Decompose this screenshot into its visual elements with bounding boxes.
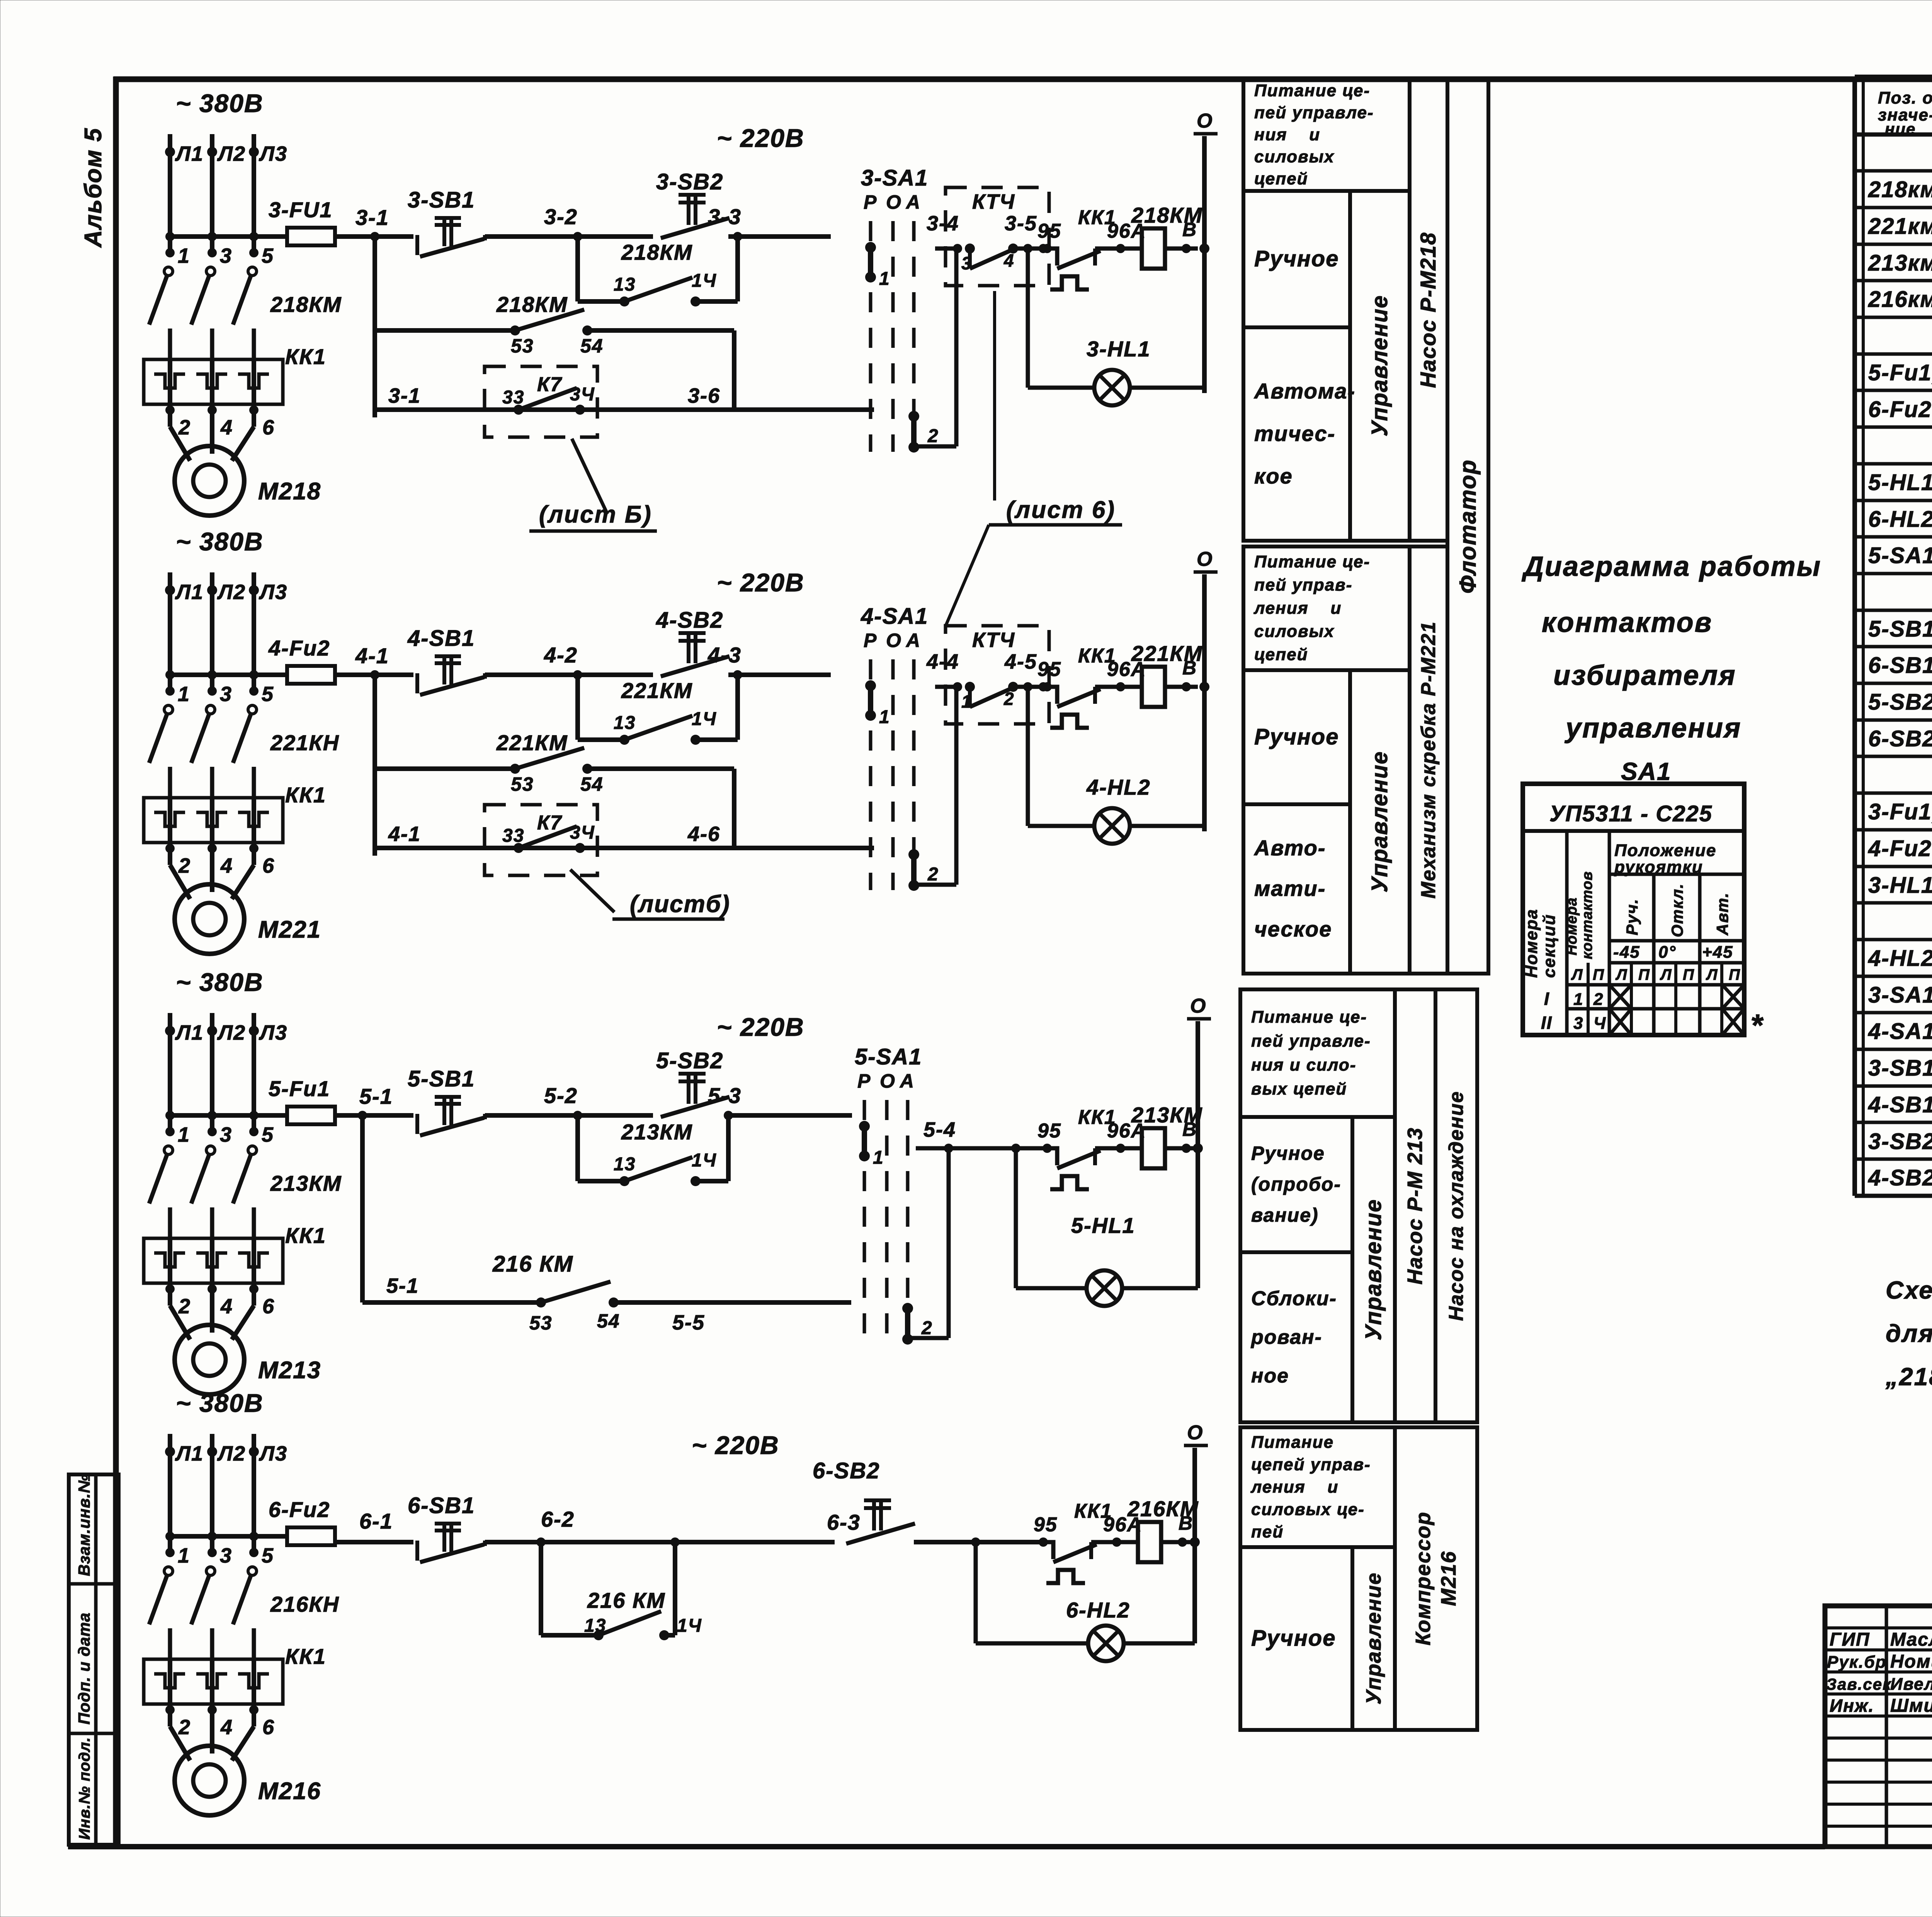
svg-text:ния и сило-: ния и сило- xyxy=(1251,1056,1356,1074)
svg-text:В: В xyxy=(1182,1119,1197,1140)
svg-text:О: О xyxy=(1197,110,1213,132)
svg-text:Л2: Л2 xyxy=(217,1442,246,1465)
svg-text:ческое: ческое xyxy=(1254,917,1332,941)
svg-text:216КН: 216КН xyxy=(270,1592,339,1616)
svg-text:221КМ: 221КМ xyxy=(621,678,693,703)
svg-text:Р: Р xyxy=(864,191,877,213)
svg-text:6-Fu2: 6-Fu2 xyxy=(269,1497,330,1522)
svg-text:Автома-: Автома- xyxy=(1253,379,1355,403)
svg-text:3: 3 xyxy=(220,683,232,706)
svg-text:4-Fu2: 4-Fu2 xyxy=(1868,836,1932,861)
svg-text:3-Fu1,: 3-Fu1, xyxy=(1868,799,1932,824)
svg-text:~ 220В: ~ 220В xyxy=(717,124,804,152)
svg-text:4-SA1: 4-SA1 xyxy=(861,604,928,629)
svg-text:ния и: ния и xyxy=(1254,125,1320,144)
svg-text:II: II xyxy=(1541,1013,1553,1033)
svg-text:Авт.: Авт. xyxy=(1713,892,1731,936)
svg-text:Шмидт: Шмидт xyxy=(1890,1696,1932,1716)
svg-text:~ 380В: ~ 380В xyxy=(176,89,264,117)
svg-text:4-SB1: 4-SB1 xyxy=(407,626,475,651)
svg-text:О: О xyxy=(1197,548,1213,570)
svg-text:6-SB1: 6-SB1 xyxy=(408,1493,475,1518)
svg-text:3-2: 3-2 xyxy=(544,204,578,229)
svg-text:3-SВ1,: 3-SВ1, xyxy=(1868,1056,1932,1081)
svg-text:2: 2 xyxy=(927,864,939,885)
svg-text:3-SB1: 3-SB1 xyxy=(408,187,475,213)
svg-text:3: 3 xyxy=(1573,1014,1583,1033)
svg-text:Л1: Л1 xyxy=(175,1021,204,1044)
svg-text:213км: 213км xyxy=(1868,250,1932,276)
svg-text:13: 13 xyxy=(614,713,636,733)
svg-text:1: 1 xyxy=(873,1147,884,1168)
svg-text:КК1: КК1 xyxy=(285,344,326,369)
svg-text:ления и: ления и xyxy=(1250,1478,1338,1496)
svg-text:О: О xyxy=(886,630,902,651)
svg-text:3-SB2: 3-SB2 xyxy=(656,169,723,194)
svg-text:КТЧ: КТЧ xyxy=(972,628,1015,652)
svg-text:Питание: Питание xyxy=(1251,1433,1334,1452)
svg-text:ления и: ления и xyxy=(1253,599,1342,618)
svg-text:3: 3 xyxy=(220,244,232,267)
svg-text:~ 380В: ~ 380В xyxy=(176,527,264,556)
svg-text:2: 2 xyxy=(1593,990,1604,1009)
svg-text:1: 1 xyxy=(178,683,190,706)
svg-text:П: П xyxy=(1638,966,1650,983)
svg-text:В: В xyxy=(1182,219,1197,240)
svg-text:Л1: Л1 xyxy=(175,142,204,165)
svg-text:221КМ: 221КМ xyxy=(496,730,568,755)
svg-text:П: П xyxy=(1683,966,1695,983)
svg-text:О: О xyxy=(1187,1422,1203,1444)
svg-text:цепей: цепей xyxy=(1254,645,1308,664)
svg-text:Управление: Управление xyxy=(1361,1199,1386,1340)
svg-text:4-3: 4-3 xyxy=(707,643,742,667)
svg-text:5-Fu1,: 5-Fu1, xyxy=(1868,360,1932,385)
svg-text:Л3: Л3 xyxy=(259,1021,287,1044)
svg-text:М216: М216 xyxy=(1437,1551,1460,1606)
svg-text:М216: М216 xyxy=(258,1778,321,1805)
svg-text:5-4: 5-4 xyxy=(923,1118,956,1141)
svg-text:5-SA1: 5-SA1 xyxy=(855,1044,922,1069)
svg-text:Инж.: Инж. xyxy=(1830,1696,1874,1716)
svg-text:95: 95 xyxy=(1037,1120,1061,1142)
svg-text:Флотатор: Флотатор xyxy=(1455,459,1481,594)
svg-text:6: 6 xyxy=(262,416,275,439)
svg-text:Ручное: Ручное xyxy=(1251,1626,1336,1651)
svg-text:4-6: 4-6 xyxy=(687,822,720,846)
svg-text:Ручное: Ручное xyxy=(1254,246,1339,271)
svg-text:Сблоки-: Сблоки- xyxy=(1251,1287,1337,1310)
svg-text:95: 95 xyxy=(1034,1514,1058,1536)
svg-text:5-1: 5-1 xyxy=(359,1084,393,1108)
svg-text:4: 4 xyxy=(220,1295,233,1318)
svg-text:кое: кое xyxy=(1254,464,1293,488)
svg-text:3-НL1: 3-НL1 xyxy=(1087,337,1151,361)
svg-text:контактов: контактов xyxy=(1579,871,1595,959)
svg-text:3: 3 xyxy=(220,1544,232,1567)
svg-text:Л2: Л2 xyxy=(217,1021,246,1044)
svg-text:мати-: мати- xyxy=(1254,876,1326,901)
svg-text:2: 2 xyxy=(178,416,191,439)
svg-text:6: 6 xyxy=(262,1295,275,1318)
svg-text:Компрессор: Компрессор xyxy=(1412,1512,1435,1646)
svg-text:5-1: 5-1 xyxy=(386,1274,419,1297)
svg-text:Питание це-: Питание це- xyxy=(1254,552,1370,571)
svg-text:М218: М218 xyxy=(258,478,321,505)
svg-text:К7: К7 xyxy=(537,812,562,834)
svg-text:рукоятки: рукоятки xyxy=(1614,858,1703,877)
svg-text:6: 6 xyxy=(262,854,275,877)
svg-text:1Ч: 1Ч xyxy=(692,709,717,729)
svg-text:218КМ: 218КМ xyxy=(270,292,342,317)
svg-text:218КМ: 218КМ xyxy=(496,292,568,317)
svg-text:Номера: Номера xyxy=(1522,909,1541,978)
svg-text:4-НL2: 4-НL2 xyxy=(1868,946,1932,971)
svg-text:Управление: Управление xyxy=(1367,751,1392,892)
svg-text:А: А xyxy=(899,1070,915,1092)
svg-text:силовых: силовых xyxy=(1254,622,1335,641)
svg-text:Масленик: Масленик xyxy=(1890,1629,1932,1650)
svg-text:3-6: 3-6 xyxy=(688,384,720,407)
svg-text:Номин: Номин xyxy=(1890,1651,1932,1672)
svg-text:вание): вание) xyxy=(1251,1204,1319,1226)
svg-text:5-НL1,: 5-НL1, xyxy=(1868,470,1932,495)
svg-text:5-SВ2: 5-SВ2 xyxy=(1868,690,1932,715)
svg-text:КК1: КК1 xyxy=(285,1223,326,1248)
svg-text:4-SB2: 4-SB2 xyxy=(656,608,723,633)
svg-text:4-5: 4-5 xyxy=(1004,650,1037,673)
svg-text:ное: ное xyxy=(1251,1365,1289,1387)
svg-text:4-1: 4-1 xyxy=(355,644,389,668)
svg-text:5-3: 5-3 xyxy=(708,1083,742,1108)
svg-text:Рук.бр: Рук.бр xyxy=(1827,1653,1886,1672)
svg-text:Насос Р-М218: Насос Р-М218 xyxy=(1416,232,1440,388)
svg-text:Л: Л xyxy=(1615,966,1628,983)
svg-text:~ 220В: ~ 220В xyxy=(717,1013,804,1041)
svg-text:6-2: 6-2 xyxy=(541,1507,575,1531)
svg-text:5-Fu1: 5-Fu1 xyxy=(269,1076,330,1101)
svg-text:управления: управления xyxy=(1565,713,1742,744)
svg-text:Номера: Номера xyxy=(1564,897,1580,955)
svg-text:4-1: 4-1 xyxy=(388,822,421,846)
svg-text:4: 4 xyxy=(220,854,233,877)
svg-text:К7: К7 xyxy=(537,373,562,396)
svg-text:пей управле-: пей управле- xyxy=(1254,103,1374,122)
svg-text:5-SB2: 5-SB2 xyxy=(656,1048,723,1073)
svg-text:Альбом 5: Альбом 5 xyxy=(80,128,107,248)
svg-text:1: 1 xyxy=(1573,990,1583,1009)
svg-text:5-5: 5-5 xyxy=(672,1311,705,1334)
svg-text:Руч.: Руч. xyxy=(1623,898,1641,935)
svg-text:Питание це-: Питание це- xyxy=(1254,81,1370,100)
svg-text:для другого она аналогична: для другого она аналогична с заменой инд… xyxy=(1886,1319,1932,1347)
svg-text:4-SВ1: 4-SВ1 xyxy=(1868,1092,1932,1117)
svg-text:3-SВ2,: 3-SВ2, xyxy=(1868,1129,1932,1154)
svg-text:2: 2 xyxy=(178,854,191,877)
svg-text:0°: 0° xyxy=(1658,943,1676,962)
svg-text:13: 13 xyxy=(614,274,636,295)
svg-text:6: 6 xyxy=(262,1716,275,1739)
svg-text:3-5: 3-5 xyxy=(1005,212,1037,235)
svg-text:А: А xyxy=(905,191,921,213)
svg-text:Насос на охлаждение: Насос на охлаждение xyxy=(1445,1091,1468,1321)
svg-text:избирателя: избирателя xyxy=(1553,660,1736,691)
svg-text:5: 5 xyxy=(262,1123,274,1146)
svg-text:В: В xyxy=(1179,1512,1193,1534)
svg-text:ние: ние xyxy=(1885,120,1916,138)
svg-text:силовых це-: силовых це- xyxy=(1251,1500,1365,1519)
svg-text:пей управ-: пей управ- xyxy=(1254,575,1352,594)
svg-text:4-4: 4-4 xyxy=(926,650,959,673)
svg-text:(опробо-: (опробо- xyxy=(1251,1173,1341,1195)
svg-text:5: 5 xyxy=(262,1544,274,1567)
svg-text:Откл.: Откл. xyxy=(1668,883,1686,937)
svg-text:221км: 221км xyxy=(1868,214,1932,239)
svg-text:Положение: Положение xyxy=(1614,841,1716,860)
svg-text:4: 4 xyxy=(220,416,233,439)
svg-text:53: 53 xyxy=(529,1312,553,1334)
svg-text:218км: 218км xyxy=(1868,177,1932,202)
svg-text:33: 33 xyxy=(502,387,524,408)
svg-text:213КМ: 213КМ xyxy=(621,1120,693,1144)
svg-text:Ручное: Ручное xyxy=(1251,1142,1325,1164)
svg-text:Инв.№ подл.: Инв.№ подл. xyxy=(76,1737,93,1840)
svg-text:Л3: Л3 xyxy=(259,1442,287,1465)
svg-text:53: 53 xyxy=(511,773,534,795)
svg-text:цепей: цепей xyxy=(1254,169,1308,188)
svg-text:216 КМ: 216 КМ xyxy=(587,1588,665,1612)
svg-text:-45: -45 xyxy=(1613,943,1640,962)
svg-text:13: 13 xyxy=(614,1154,636,1175)
svg-text:пей управле-: пей управле- xyxy=(1251,1032,1371,1050)
svg-text:М213: М213 xyxy=(258,1357,321,1384)
svg-text:П: П xyxy=(1729,966,1741,983)
svg-text:4-НL2: 4-НL2 xyxy=(1086,775,1151,799)
svg-text:тичес-: тичес- xyxy=(1254,421,1335,446)
svg-text:ГИП: ГИП xyxy=(1830,1629,1870,1650)
svg-text:КК1: КК1 xyxy=(285,1644,326,1668)
svg-text:33: 33 xyxy=(502,826,524,846)
svg-text:1Ч: 1Ч xyxy=(692,271,717,291)
svg-text:5-2: 5-2 xyxy=(544,1083,578,1108)
svg-text:2: 2 xyxy=(178,1295,191,1318)
svg-text:А: А xyxy=(905,630,921,651)
svg-text:6-Fu2: 6-Fu2 xyxy=(1868,397,1932,422)
svg-text:*: * xyxy=(1750,1008,1764,1042)
svg-text:Л: Л xyxy=(1660,966,1672,983)
svg-text:I: I xyxy=(1544,989,1550,1009)
svg-text:Авто-: Авто- xyxy=(1253,836,1326,860)
svg-text:6-SВ2: 6-SВ2 xyxy=(1868,726,1932,751)
svg-text:„218” и „221” но „223” и „226”: „218” и „221” но „223” и „226” и „3”,„4”… xyxy=(1885,1363,1932,1391)
svg-text:силовых: силовых xyxy=(1254,147,1335,166)
svg-text:3-FU1: 3-FU1 xyxy=(269,197,333,222)
svg-text:рован-: рован- xyxy=(1250,1326,1322,1348)
svg-text:Подп. и дата: Подп. и дата xyxy=(75,1612,93,1725)
svg-text:Л2: Л2 xyxy=(217,581,246,604)
svg-text:Л: Л xyxy=(1571,966,1583,983)
svg-text:Ч: Ч xyxy=(1594,1014,1606,1033)
svg-text:УП5311 - С225: УП5311 - С225 xyxy=(1549,801,1713,826)
svg-text:6-НL2: 6-НL2 xyxy=(1066,1598,1130,1622)
svg-text:~ 220В: ~ 220В xyxy=(692,1431,779,1459)
svg-text:Взам.инв.№: Взам.инв.№ xyxy=(75,1474,93,1576)
svg-text:54: 54 xyxy=(580,335,604,357)
svg-text:218КМ: 218КМ xyxy=(621,240,693,264)
svg-text:Л3: Л3 xyxy=(259,581,287,604)
svg-text:Р: Р xyxy=(864,630,877,651)
svg-text:5-SB1: 5-SB1 xyxy=(408,1066,475,1091)
svg-text:6-НL2: 6-НL2 xyxy=(1868,507,1932,532)
svg-text:213КМ: 213КМ xyxy=(270,1171,342,1195)
svg-text:~ 380В: ~ 380В xyxy=(176,968,264,996)
svg-text:+45: +45 xyxy=(1702,943,1733,962)
svg-text:КК1: КК1 xyxy=(285,783,326,807)
svg-text:3: 3 xyxy=(220,1123,232,1146)
svg-text:3-1: 3-1 xyxy=(355,205,389,230)
svg-text:Л1: Л1 xyxy=(175,581,204,604)
svg-text:Ручное: Ручное xyxy=(1254,724,1339,749)
svg-text:М221: М221 xyxy=(258,916,321,943)
svg-text:6-1: 6-1 xyxy=(359,1509,393,1533)
svg-text:221КН: 221КН xyxy=(270,730,339,755)
svg-text:О: О xyxy=(886,191,902,213)
svg-text:4-SВ2: 4-SВ2 xyxy=(1868,1165,1932,1190)
svg-text:95: 95 xyxy=(1037,220,1061,242)
svg-text:1: 1 xyxy=(178,1544,190,1567)
svg-text:Механизм скребка Р-М221: Механизм скребка Р-М221 xyxy=(1417,621,1440,899)
svg-text:Л3: Л3 xyxy=(259,142,287,165)
svg-text:Управление: Управление xyxy=(1362,1572,1385,1704)
svg-text:1: 1 xyxy=(879,269,890,289)
svg-text:5-SВ1,: 5-SВ1, xyxy=(1868,616,1932,642)
svg-text:О: О xyxy=(880,1070,896,1092)
svg-text:2: 2 xyxy=(178,1716,191,1739)
svg-text:5-SА1: 5-SА1 xyxy=(1868,543,1932,568)
svg-text:Схема управления флотатором: Схема управления флотатором выполнена дл… xyxy=(1886,1276,1932,1304)
svg-text:Л: Л xyxy=(1706,966,1718,983)
svg-text:цепей управ-: цепей управ- xyxy=(1251,1455,1371,1474)
svg-text:SА1: SА1 xyxy=(1621,758,1672,785)
svg-text:3-SА1: 3-SА1 xyxy=(1868,982,1932,1008)
svg-text:3-НL1,: 3-НL1, xyxy=(1868,873,1932,898)
svg-text:Питание це-: Питание це- xyxy=(1251,1008,1367,1027)
svg-text:6-SВ1: 6-SВ1 xyxy=(1868,653,1932,678)
svg-text:216 КМ: 216 КМ xyxy=(492,1251,573,1277)
svg-text:Насос Р-М 213: Насос Р-М 213 xyxy=(1403,1127,1427,1284)
svg-text:5-НL1: 5-НL1 xyxy=(1071,1213,1135,1238)
svg-text:КТЧ: КТЧ xyxy=(972,190,1015,213)
svg-text:216км: 216км xyxy=(1868,287,1932,312)
svg-text:вых цепей: вых цепей xyxy=(1251,1079,1347,1098)
svg-text:пей: пей xyxy=(1251,1522,1284,1541)
svg-text:5: 5 xyxy=(262,683,274,706)
svg-text:4-SА1: 4-SА1 xyxy=(1868,1019,1932,1044)
svg-text:1Ч: 1Ч xyxy=(692,1150,717,1171)
svg-text:(листб): (листб) xyxy=(630,891,730,918)
svg-text:3-SA1: 3-SA1 xyxy=(861,165,928,191)
svg-text:Л2: Л2 xyxy=(217,142,246,165)
svg-text:4: 4 xyxy=(220,1716,233,1739)
svg-text:Л1: Л1 xyxy=(175,1442,204,1465)
svg-text:Диаграмма работы: Диаграмма работы xyxy=(1521,551,1821,582)
svg-text:П: П xyxy=(1593,966,1605,983)
svg-text:В: В xyxy=(1182,657,1197,679)
svg-text:~ 380В: ~ 380В xyxy=(176,1389,264,1417)
svg-text:3-4: 3-4 xyxy=(927,212,959,235)
svg-text:Р: Р xyxy=(857,1070,871,1092)
svg-text:секций: секций xyxy=(1540,914,1559,978)
svg-text:3-1: 3-1 xyxy=(388,384,421,407)
svg-text:(лист 6): (лист 6) xyxy=(1006,497,1116,523)
svg-text:~ 220В: ~ 220В xyxy=(717,568,804,597)
svg-text:1: 1 xyxy=(879,707,890,727)
svg-text:53: 53 xyxy=(511,335,534,357)
svg-text:Зав.сек: Зав.сек xyxy=(1826,1675,1891,1693)
svg-text:95: 95 xyxy=(1037,658,1061,681)
svg-text:1Ч: 1Ч xyxy=(677,1616,702,1636)
svg-text:54: 54 xyxy=(597,1310,620,1332)
svg-text:6-3: 6-3 xyxy=(827,1510,861,1534)
svg-text:Ивельская: Ивельская xyxy=(1890,1675,1932,1694)
svg-text:2: 2 xyxy=(927,426,939,446)
svg-text:(лист Б): (лист Б) xyxy=(539,501,652,528)
svg-text:Поз. обо-: Поз. обо- xyxy=(1878,89,1932,107)
svg-text:3-3: 3-3 xyxy=(708,204,742,229)
svg-text:Управление: Управление xyxy=(1367,295,1392,436)
svg-text:2: 2 xyxy=(921,1318,933,1338)
svg-text:6-SB2: 6-SB2 xyxy=(813,1458,880,1483)
svg-text:4-Fu2: 4-Fu2 xyxy=(268,636,330,660)
svg-text:1: 1 xyxy=(178,1123,190,1146)
svg-text:1: 1 xyxy=(178,244,190,267)
svg-text:54: 54 xyxy=(580,773,604,795)
svg-text:5: 5 xyxy=(262,244,274,267)
svg-text:4-2: 4-2 xyxy=(544,643,578,667)
svg-text:контактов: контактов xyxy=(1542,607,1713,638)
svg-text:О: О xyxy=(1190,995,1206,1017)
